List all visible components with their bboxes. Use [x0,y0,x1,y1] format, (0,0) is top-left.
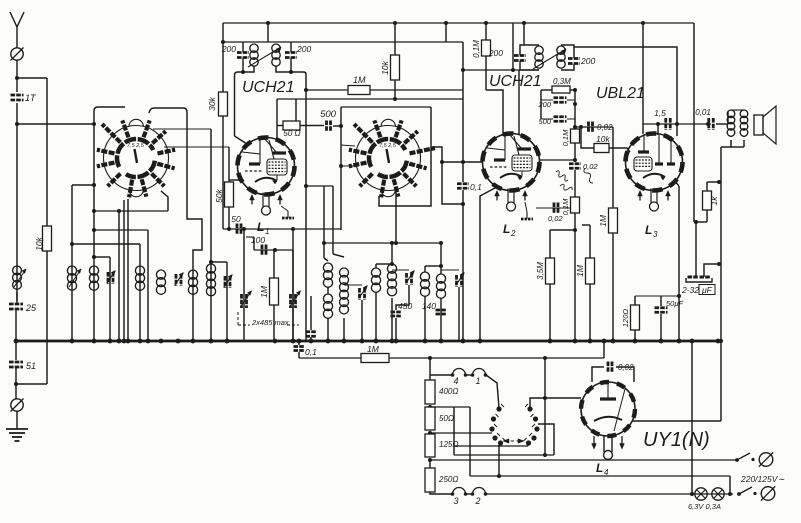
svg-text:50μF: 50μF [666,299,683,308]
svg-text:3: 3 [653,230,658,239]
svg-text:1M: 1M [259,285,269,298]
svg-text:μF: μF [701,285,713,295]
svg-text:0,1: 0,1 [305,347,317,357]
svg-text:200: 200 [488,48,503,58]
svg-text:10k: 10k [380,60,390,74]
svg-text:50: 50 [231,214,241,224]
svg-text:51: 51 [26,361,36,371]
svg-text:200: 200 [537,100,551,109]
svg-text:UCH21: UCH21 [489,73,541,90]
svg-text:250Ω: 250Ω [438,475,458,484]
svg-text:220/125V∼: 220/125V∼ [740,474,785,484]
svg-text:2·32: 2·32 [681,285,699,295]
svg-text:140: 140 [422,301,436,311]
svg-text:0,1: 0,1 [470,182,482,192]
svg-text:1: 1 [265,227,269,236]
svg-text:400Ω: 400Ω [439,387,458,396]
svg-text:7,5 2,5: 7,5 2,5 [379,143,397,149]
svg-text:1T: 1T [25,93,37,103]
svg-text:50k: 50k [214,188,224,202]
svg-text:1: 1 [475,376,480,386]
svg-text:L: L [596,461,603,475]
svg-text:10k: 10k [34,236,44,250]
svg-text:UY1(N): UY1(N) [643,429,710,451]
svg-text:L: L [503,222,510,236]
svg-text:3: 3 [453,496,458,506]
svg-text:1M: 1M [575,264,585,277]
svg-text:120Ω: 120Ω [621,309,630,328]
svg-text:200: 200 [296,44,311,54]
svg-text:6,3V 0,3A: 6,3V 0,3A [688,502,721,511]
svg-text:7,5 2,5: 7,5 2,5 [127,143,145,149]
svg-text:2: 2 [510,229,516,238]
svg-text:2x485 max.: 2x485 max. [251,318,291,327]
svg-text:UCH21: UCH21 [242,79,294,96]
svg-text:3,5M: 3,5M [536,262,545,280]
svg-text:1M: 1M [367,344,380,354]
svg-text:10k: 10k [596,134,610,144]
svg-text:0,1M: 0,1M [561,198,570,215]
svg-text:500: 500 [538,117,551,126]
svg-text:0,1M: 0,1M [561,129,570,146]
svg-text:200: 200 [580,56,595,66]
svg-text:0,02: 0,02 [583,162,598,171]
svg-text:25: 25 [25,303,37,313]
svg-text:0,1M: 0,1M [472,40,481,58]
svg-text:0,3M: 0,3M [553,77,571,86]
svg-text:500: 500 [320,109,337,120]
svg-text:L: L [645,223,652,237]
svg-text:0,01: 0,01 [695,108,711,117]
svg-text:1k: 1k [709,196,719,206]
svg-text:1M: 1M [353,75,366,85]
svg-text:1M: 1M [598,214,608,227]
svg-text:50 Ω: 50 Ω [283,129,300,138]
svg-text:450: 450 [398,301,412,311]
svg-text:L: L [257,220,264,234]
svg-text:50Ω: 50Ω [439,414,454,423]
svg-text:125Ω: 125Ω [439,440,458,449]
svg-text:2: 2 [474,496,480,506]
svg-text:1,5: 1,5 [654,108,666,118]
svg-text:4: 4 [453,376,458,386]
svg-text:30k: 30k [207,96,217,110]
svg-text:0,02: 0,02 [597,123,613,132]
svg-text:200: 200 [221,44,236,54]
svg-text:UBL21: UBL21 [596,85,645,102]
